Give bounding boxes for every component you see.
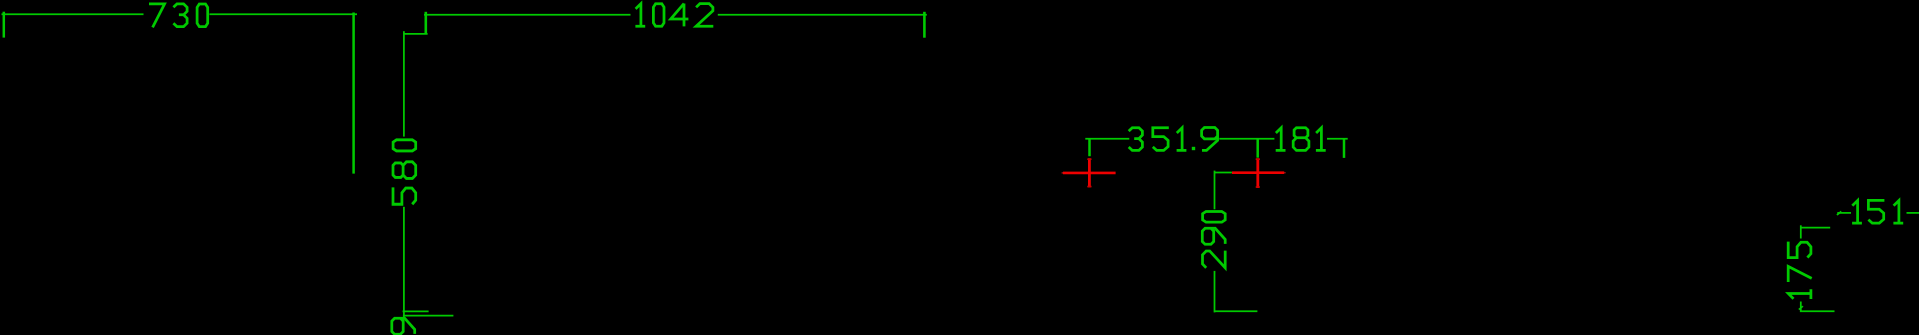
text 151 — [1852, 200, 1903, 223]
dimension D580 line upper segment — [403, 31, 405, 136]
dimension D730 line right segment — [210, 13, 358, 15]
dimension D580 top tick line — [404, 33, 428, 35]
dimension D290 top tick line — [1214, 172, 1232, 174]
dimension D290 line lower segment — [1214, 271, 1216, 313]
dimension D730 line left segment — [2, 13, 144, 15]
text 580 (rotated) — [393, 140, 416, 204]
dimension D351.9 / D181 shared extension line — [1256, 139, 1259, 158]
dimension D9x bottom tick line — [403, 315, 454, 317]
dimension D580 line lower segment — [403, 207, 405, 312]
center mark 2 (red cross) — [1232, 158, 1286, 188]
text 1042 — [635, 4, 713, 27]
text 175 (rotated) — [1788, 242, 1812, 299]
dimension D9x line stub — [403, 311, 405, 318]
text 351.9 — [1129, 128, 1218, 151]
center mark 1 (red cross) — [1062, 158, 1116, 187]
dimension D1042 right extension line — [923, 12, 926, 38]
dimension D1042 line right segment — [718, 14, 927, 16]
dimension D290 bottom tick line — [1215, 310, 1258, 312]
dimension D580 bottom tick line — [403, 310, 429, 312]
dimension D1042 line left segment — [424, 14, 631, 16]
text 9 partial (rotated) — [392, 318, 415, 334]
dimension D1042 left extension line — [424, 12, 427, 35]
dimension D151 line left segment — [1837, 212, 1851, 214]
dimension D175 line upper segment — [1800, 225, 1802, 238]
text 730 — [149, 4, 208, 28]
dimension D351.9 left extension line — [1088, 139, 1091, 156]
dimension D175 top tick line — [1801, 227, 1830, 229]
dimension D175 line lower segment — [1800, 302, 1802, 312]
dimension D175 bottom tick line — [1800, 310, 1835, 312]
text 181 — [1276, 128, 1326, 151]
dimension D730 right extension line — [352, 13, 355, 174]
dimension D730 left extension line — [3, 12, 6, 38]
text 290 (rotated) — [1202, 212, 1225, 268]
dimension D175 bottom oblique tick — [1799, 306, 1803, 309]
dimension D151 line right segment — [1907, 212, 1919, 214]
dimension D181 line right segment — [1327, 138, 1348, 140]
dimension D351.9 / D181 line middle segment — [1219, 138, 1274, 140]
dimension D151 left tick — [1837, 212, 1841, 215]
dimension D351.9 line left segment — [1085, 138, 1129, 140]
dimension D290 line upper segment — [1214, 171, 1216, 210]
dimension D181 right extension line — [1343, 139, 1346, 158]
